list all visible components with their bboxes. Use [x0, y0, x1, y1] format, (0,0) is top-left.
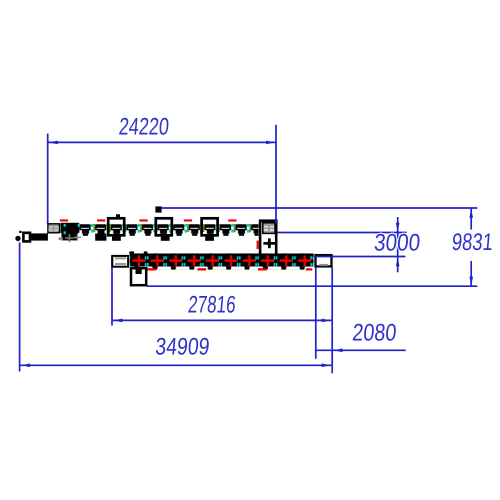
arrow 3000 top (points down): [396, 223, 400, 232]
haul-off assembly below band: [59, 223, 81, 242]
bottom extension line y286.2: [147, 285, 477, 287]
arrow 3000 bottom (points up): [396, 257, 400, 266]
dimension line 3000 vertical: [397, 217, 399, 272]
elevator frame at upper band end: [259, 219, 278, 257]
dimension line 24220: [48, 141, 276, 143]
top extension line y208: [158, 207, 477, 209]
dim text 2080: [351, 320, 397, 347]
red dashes below lower band: [148, 268, 313, 270]
svg-text:3000: 3000: [373, 230, 421, 257]
extension line y232.5: [276, 232, 406, 234]
lower conveyor band: [130, 253, 314, 269]
box B1 on upper band: [108, 218, 124, 235]
red vertical dash near elevator: [257, 241, 259, 249]
dim text 9831: [451, 229, 494, 256]
red dash markers above upper band: [60, 219, 237, 221]
extension line x315.8: [315, 267, 317, 358]
black square point marker on y208 line: [155, 206, 161, 212]
extruder head circle: [15, 236, 20, 241]
svg-text:2080: 2080: [351, 320, 397, 347]
dim text 3000: [373, 230, 421, 257]
arrow 2080 (points left): [333, 349, 343, 353]
extension line 24220 left: [47, 134, 49, 225]
tab on band left top: [129, 251, 134, 254]
tab on band top right of leg: [144, 251, 148, 254]
extension line x332.2: [331, 267, 333, 373]
foot under box B2: [161, 236, 170, 241]
arrow 9831 bottom (points down): [469, 277, 473, 287]
extruder head tick: [19, 231, 21, 233]
svg-text:24220: 24220: [118, 114, 170, 141]
extruder head box: [23, 233, 30, 242]
dimension line 9831 lower segment: [470, 261, 472, 286]
dim text 34909: [154, 334, 210, 361]
dimension line 2080: [316, 349, 406, 351]
svg-text:27816: 27816: [187, 291, 237, 318]
box B3 on upper band: [202, 218, 218, 235]
dimension line 9831 upper segment: [470, 209, 472, 230]
dimension line 34909: [20, 364, 331, 366]
svg-text:34909: 34909: [154, 334, 210, 361]
extension line segment over right end box: [314, 256, 333, 258]
extension line 34909 left: [19, 243, 21, 372]
left support leg of lower conveyor: [131, 267, 146, 285]
elevator gearbox: [263, 223, 275, 234]
dim text 24220: [118, 114, 170, 141]
arrow 34909 right: [322, 364, 332, 368]
extension line 27816 left: [111, 255, 113, 325]
foot under box B1: [112, 236, 121, 241]
dim text 27816: [187, 291, 237, 318]
extruder barrel bar: [31, 233, 48, 240]
box B2 on upper band: [156, 218, 172, 235]
arrow 9831 top (points up): [469, 208, 473, 218]
haul-off gearbox at band start: [48, 224, 60, 233]
wide foot x95: [95, 234, 106, 241]
tick on box B1: [116, 214, 120, 217]
arrow 34909 left: [21, 364, 31, 368]
arrow 24220 right: [266, 141, 276, 145]
arrow 27816 right: [322, 319, 332, 323]
extension line y256.5: [313, 256, 406, 258]
right end box of lower conveyor: [316, 255, 332, 266]
foot under box B3: [205, 236, 214, 241]
arrow 24220 left: [48, 141, 58, 145]
extension line segment over elevator top bar: [275, 219, 277, 224]
arrow 27816 left: [113, 319, 123, 323]
upper conveyor band: [60, 222, 259, 236]
dimension line 27816: [113, 319, 332, 321]
elevator counterweight cross: [263, 238, 275, 248]
left end box of lower conveyor: [112, 256, 128, 267]
svg-text:9831: 9831: [451, 229, 494, 256]
extension line 24220 right: [275, 125, 277, 224]
